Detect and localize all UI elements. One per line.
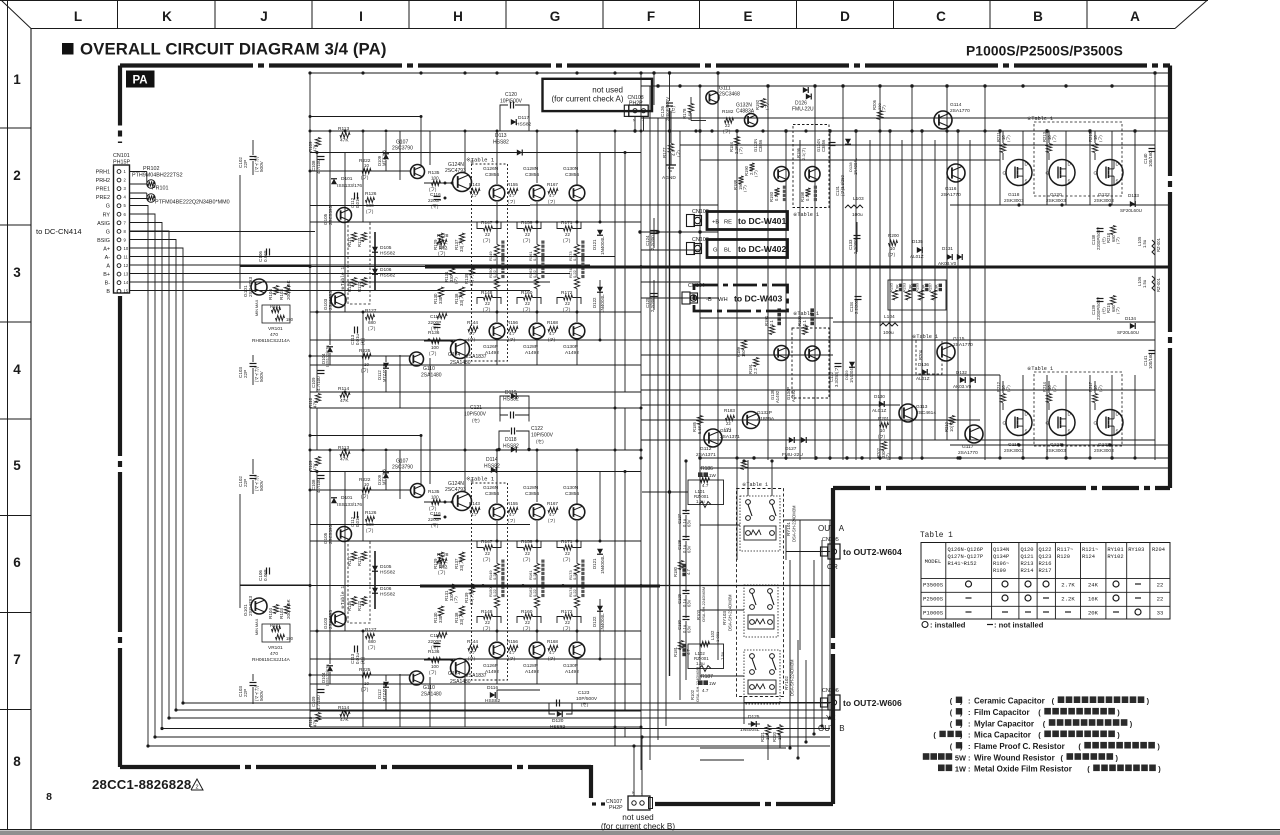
svg-text:(フ): (フ): [468, 656, 476, 661]
svg-text:G128P: G128P: [523, 344, 538, 350]
svg-text:2SA1480: 2SA1480: [450, 360, 471, 366]
svg-text:(フ): (フ): [676, 150, 681, 157]
wire: [424, 659, 452, 661]
wire: [1094, 403, 1096, 410]
transistor: [899, 404, 917, 422]
resistor R101 network: [262, 305, 290, 323]
svg-text:16K: 16K: [1088, 596, 1099, 603]
svg-text:63V: 63V: [687, 545, 692, 553]
svg-text:R204: R204: [918, 349, 923, 360]
wire thick rail A: [425, 266, 1170, 269]
header tick: [408, 0, 410, 29]
wire: [911, 86, 913, 460]
resistor: [315, 138, 320, 147]
svg-text:(フ): (フ): [368, 326, 376, 331]
resistor: [437, 558, 447, 563]
svg-text:22: 22: [485, 301, 490, 306]
row tick: [0, 515, 31, 517]
japanese text: [698, 680, 703, 685]
svg-text:6: 6: [13, 555, 21, 570]
svg-text:R118: R118: [347, 601, 352, 611]
svg-text:2SC3468: 2SC3468: [719, 92, 740, 98]
wire: [957, 131, 959, 440]
svg-text:to DC-CN414: to DC-CN414: [36, 227, 82, 236]
svg-text:C3856: C3856: [565, 491, 579, 497]
svg-text:※Table 1: ※Table 1: [1027, 366, 1053, 372]
svg-text:2SK3003: 2SK3003: [1094, 198, 1114, 204]
wire thick rail B: [420, 585, 660, 588]
wire: [641, 297, 718, 299]
svg-text:G: G: [1094, 171, 1098, 176]
dashed box driver B: [792, 328, 829, 398]
wire: [641, 231, 718, 233]
resistor: [753, 358, 758, 367]
svg-text:0.22: 0.22: [572, 588, 577, 597]
svg-text:(フ): (フ): [483, 557, 491, 562]
wire: [536, 587, 538, 597]
svg-text:G113: G113: [916, 404, 928, 410]
japanese text: [501, 576, 504, 579]
svg-text:(フ): (フ): [438, 570, 446, 575]
svg-text:MTZJ1B: MTZJ1B: [382, 150, 387, 166]
dashed box R204: [916, 340, 942, 374]
svg-text:1N4004L: 1N4004L: [853, 157, 858, 175]
svg-text:0.1: 0.1: [805, 195, 810, 201]
svg-text:RY102: RY102: [784, 676, 789, 690]
wire: [1022, 131, 1024, 205]
svg-text:G126N: G126N: [483, 485, 499, 491]
wire: [536, 608, 538, 642]
diode: [331, 179, 337, 184]
svg-text:D130: D130: [874, 394, 885, 399]
svg-text:G118: G118: [1008, 192, 1020, 198]
svg-text:(フ): (フ): [508, 656, 516, 661]
wire: [310, 540, 641, 542]
wire: [310, 683, 641, 685]
transistor: [331, 293, 346, 308]
resistor: [468, 645, 478, 650]
svg-text:R172: R172: [561, 609, 573, 615]
svg-text:0.22: 0.22: [532, 571, 537, 580]
svg-text:A1492: A1492: [485, 669, 499, 675]
wire: [700, 759, 744, 761]
svg-text:G123: G123: [1098, 442, 1110, 448]
svg-text:VR101: VR101: [268, 645, 283, 651]
resistor: [1092, 394, 1097, 403]
svg-text:R156: R156: [507, 320, 518, 325]
dashed table box column Q126: [472, 164, 508, 361]
svg-text:R160: R160: [521, 609, 533, 615]
wire CN101 signal: [130, 273, 571, 275]
svg-text:C120: C120: [505, 92, 517, 98]
wire: [641, 339, 1155, 341]
resistor: [524, 614, 533, 619]
svg-text:D125: D125: [748, 714, 760, 720]
wire ladder steps: [477, 298, 484, 305]
wire: [624, 727, 626, 737]
svg-text:R117~: R117~: [1057, 547, 1073, 553]
wire: [717, 73, 719, 660]
svg-text:4.7: 4.7: [686, 569, 691, 575]
svg-text:※Table 1: ※Table 1: [912, 334, 938, 340]
diode: [327, 666, 333, 671]
svg-text:G117: G117: [962, 444, 974, 450]
diode: [806, 94, 811, 100]
wire CN101 signal: [130, 256, 616, 258]
japanese text: [1093, 765, 1100, 772]
capacitor: [511, 428, 513, 435]
wire: [536, 202, 538, 245]
wire: [680, 144, 1155, 146]
svg-text:DSA-SH-224DM3M: DSA-SH-224DM3M: [728, 594, 733, 631]
capacitor: [318, 475, 325, 477]
row tick: [0, 709, 31, 711]
svg-text:S: S: [1116, 429, 1119, 434]
CN101 pin 15 B: [117, 289, 121, 293]
wire: [536, 521, 538, 564]
transistor Q118 2SK3003: [1006, 160, 1032, 186]
resistor: [880, 422, 889, 427]
wire: [642, 491, 688, 493]
resistor PR101: [147, 194, 155, 202]
svg-text:※Table 1: ※Table 1: [340, 586, 346, 609]
resistor: [931, 290, 936, 300]
svg-text:S: S: [1025, 429, 1028, 434]
svg-text:200 1.6K: 200 1.6K: [286, 279, 291, 300]
svg-text:G: G: [1003, 171, 1007, 176]
svg-text:2SC5395: 2SC5395: [328, 524, 333, 544]
connector CN103 plug: [687, 243, 695, 255]
svg-text:G: G: [106, 229, 110, 235]
svg-text:※Table 1: ※Table 1: [793, 212, 819, 218]
CN101 pin 3 PRE1: [117, 187, 121, 191]
wire: [576, 587, 578, 597]
svg-text:4.7/100: 4.7/100: [316, 695, 321, 710]
PA boundary right: [1168, 66, 1172, 489]
resistor: [548, 326, 558, 331]
svg-text:G124: G124: [448, 671, 460, 677]
wire: [252, 480, 254, 494]
wire: [950, 444, 1170, 446]
transistor: [410, 352, 424, 366]
svg-text:OUT A: OUT A: [818, 524, 845, 533]
svg-text:R207: R207: [929, 283, 933, 292]
resistor: [470, 188, 480, 193]
resistor: [564, 614, 573, 619]
wire: [310, 407, 641, 409]
japanese text: [938, 765, 945, 772]
svg-text:2SA1993: 2SA1993: [328, 610, 333, 629]
resistor: [432, 180, 441, 185]
resistor: [881, 442, 886, 451]
wire: [1002, 153, 1004, 160]
wire: [576, 289, 578, 323]
resistor: [273, 286, 278, 295]
svg-text:4.7: 4.7: [702, 688, 709, 693]
svg-text:R225: R225: [359, 348, 371, 354]
japanese text: [810, 322, 814, 326]
transistor: [805, 167, 820, 182]
svg-text:C4883A: C4883A: [736, 109, 755, 115]
svg-text:(フ): (フ): [508, 337, 516, 342]
resistor: [760, 99, 765, 108]
capacitor: [683, 616, 690, 618]
svg-text:D119: D119: [505, 390, 517, 396]
wire: [634, 117, 636, 132]
svg-text:1N4004L: 1N4004L: [600, 555, 605, 574]
svg-text:Mica Capacitor: Mica Capacitor: [974, 731, 1031, 740]
transistor: [569, 323, 585, 339]
svg-text:AK03.V0: AK03.V0: [953, 384, 972, 389]
svg-text:12K: 12K: [765, 732, 770, 740]
wire: [316, 472, 318, 712]
svg-text:2SA1770: 2SA1770: [958, 450, 978, 456]
wire: [362, 450, 364, 541]
svg-text:(フ): (フ): [483, 307, 491, 312]
svg-text:100/160: 100/160: [1148, 353, 1153, 369]
resistor: [574, 278, 579, 289]
svg-text:4.7: 4.7: [469, 650, 476, 655]
resistor: [361, 597, 366, 606]
wire: [641, 354, 833, 356]
svg-text:2.2/200: 2.2/200: [650, 235, 655, 250]
svg-text:Mylar Capacitor: Mylar Capacitor: [974, 719, 1034, 728]
wire: [785, 131, 787, 460]
diode: [383, 473, 389, 478]
svg-text:D101: D101: [341, 495, 353, 501]
wire: [685, 541, 687, 592]
svg-text:500V: 500V: [259, 370, 264, 382]
wire: [736, 131, 738, 560]
svg-text:(フ): (フ): [723, 129, 731, 134]
svg-text:※Table 1: ※Table 1: [793, 311, 819, 317]
resistor: [668, 144, 673, 153]
svg-text:R122: R122: [357, 281, 362, 292]
svg-text:22: 22: [565, 301, 570, 306]
svg-text:A-: A-: [105, 255, 111, 261]
svg-text:R168: R168: [547, 320, 558, 325]
svg-text:100: 100: [431, 664, 439, 669]
resistor: [276, 315, 285, 320]
resistor: [315, 457, 320, 466]
wire: [576, 256, 578, 267]
RZ102 element L102: [688, 644, 724, 669]
transistor: [337, 527, 352, 542]
PA boundary right riser: [831, 488, 835, 804]
svg-text:(フ): (フ): [548, 656, 556, 661]
capacitor: [266, 568, 268, 575]
svg-text:22: 22: [485, 551, 490, 556]
header tick: [117, 0, 119, 29]
svg-text:Q122: Q122: [1039, 547, 1052, 553]
svg-text:C3856: C3856: [821, 139, 826, 152]
table 1 grid: [921, 543, 1170, 620]
wire: [429, 408, 431, 450]
capacitor: [829, 142, 836, 144]
svg-text:H: H: [453, 9, 463, 24]
svg-text:R196~: R196~: [993, 561, 1009, 567]
junction dots: [656, 84, 659, 87]
transistor: [251, 598, 267, 614]
svg-text:(フ): (フ): [368, 645, 376, 650]
resistor: [432, 499, 441, 504]
wire: [1089, 131, 1091, 205]
transistor: [410, 671, 424, 685]
svg-text:D116: D116: [487, 685, 498, 691]
resistor: [351, 278, 356, 287]
svg-text:R177: R177: [662, 147, 667, 158]
transistor: [331, 612, 346, 627]
svg-text:680: 680: [439, 245, 447, 250]
resistor: [276, 634, 285, 639]
svg-text:22: 22: [525, 551, 530, 556]
svg-text:R104: R104: [268, 289, 273, 300]
resistor: [366, 516, 375, 521]
svg-text:D122: D122: [592, 297, 597, 308]
svg-text:22: 22: [565, 551, 570, 556]
wire: [670, 111, 672, 143]
svg-text:R155: R155: [507, 182, 518, 187]
diode: [803, 87, 808, 93]
svg-text:G130N: G130N: [563, 166, 579, 172]
capacitor: [354, 193, 356, 200]
diode: [970, 377, 975, 383]
svg-text:P2500S: P2500S: [923, 596, 944, 603]
svg-text:R159: R159: [521, 539, 533, 545]
transistor: [947, 164, 965, 182]
wire: [685, 621, 687, 680]
relay RY102: [744, 650, 780, 704]
wire: [362, 312, 364, 408]
svg-text:1.5u: 1.5u: [1142, 239, 1147, 248]
svg-text:2SA1371: 2SA1371: [696, 452, 716, 458]
wire: [329, 334, 331, 345]
wire: [690, 113, 692, 121]
svg-text:4.7: 4.7: [702, 483, 709, 488]
svg-text:(フ): (フ): [878, 434, 886, 439]
wire: [576, 608, 578, 642]
wire: [641, 419, 980, 421]
row tick: [0, 418, 31, 420]
svg-text:YE: YE: [826, 713, 836, 722]
svg-text:10: 10: [364, 681, 369, 686]
resistor: [805, 188, 810, 196]
capacitor: [556, 700, 558, 707]
svg-text:C102: C102: [238, 157, 243, 168]
wire: [1094, 131, 1096, 143]
svg-text:2SA1480: 2SA1480: [450, 679, 471, 685]
svg-text:D105: D105: [380, 245, 392, 251]
wire: [653, 218, 655, 248]
svg-text:Q134P: Q134P: [993, 554, 1009, 560]
transistor: [774, 167, 789, 182]
connector CN104 box dashed: [694, 285, 788, 311]
svg-text:2SC3790: 2SC3790: [392, 465, 413, 471]
japanese text: [777, 322, 781, 326]
wire: [614, 450, 616, 727]
wire: [670, 153, 672, 165]
svg-text:0.1: 0.1: [774, 195, 779, 201]
wire: [1048, 381, 1050, 393]
CN101 pin 14 B-: [117, 281, 121, 285]
header tick: [893, 0, 895, 29]
resistor: [272, 307, 281, 312]
top-left corner diagonal: [1, 0, 31, 29]
japanese text: [956, 719, 962, 725]
svg-text:G130N: G130N: [563, 485, 579, 491]
svg-text:D105: D105: [380, 564, 392, 570]
relay RY103: [744, 585, 778, 637]
transistor: [489, 504, 505, 520]
wire: [614, 408, 616, 450]
capacitor: [510, 102, 512, 109]
wire: [310, 116, 421, 118]
svg-text:R121~: R121~: [1082, 547, 1098, 553]
svg-text:(フ): (フ): [366, 528, 374, 533]
japanese text: [1058, 696, 1065, 703]
svg-text:22: 22: [485, 620, 490, 625]
svg-text:BSIG: BSIG: [97, 238, 110, 244]
svg-text:2.2K: 2.2K: [1061, 596, 1075, 603]
resistor: [548, 507, 558, 512]
svg-text:L103: L103: [853, 196, 864, 202]
japanese text: [541, 594, 544, 597]
diode: [372, 566, 378, 571]
svg-text:G121: G121: [1050, 442, 1062, 448]
row tick: [0, 612, 31, 614]
wire ladder steps: [557, 298, 564, 305]
capacitor: [1149, 148, 1156, 150]
svg-text:2SC3790: 2SC3790: [392, 146, 413, 152]
svg-text:to DC-W401: to DC-W401: [738, 216, 786, 226]
svg-text:R200: R200: [888, 233, 899, 238]
resistor: [1000, 144, 1005, 153]
svg-text:(フ): (フ): [523, 557, 531, 562]
transistor: [529, 323, 545, 339]
svg-text:(フ): (フ): [563, 557, 571, 562]
svg-text:G: G: [1046, 421, 1050, 426]
svg-text:100u: 100u: [883, 330, 894, 336]
wire: [429, 358, 431, 408]
svg-text:C3856: C3856: [485, 172, 499, 178]
svg-text:SF20L60U: SF20L60U: [1120, 208, 1142, 213]
svg-text:R147: R147: [481, 220, 493, 226]
svg-text:R114: R114: [338, 705, 349, 711]
wire: [429, 131, 431, 165]
resistor: [468, 326, 478, 331]
svg-text:R117: R117: [347, 556, 352, 566]
wire: [329, 353, 331, 365]
wire: [1048, 153, 1050, 160]
diode: [597, 606, 603, 611]
wire: [1002, 131, 1004, 143]
transistor: [411, 165, 425, 179]
wire: [789, 560, 791, 620]
svg-text:2SA1770: 2SA1770: [950, 108, 970, 114]
header tick: [699, 0, 701, 29]
svg-text:P1000S/P2500S/P3500S: P1000S/P2500S/P3500S: [966, 44, 1123, 59]
svg-text:P3500S: P3500S: [923, 582, 944, 589]
wire: [374, 551, 376, 609]
svg-text:680: 680: [439, 564, 447, 569]
wire: [685, 595, 687, 618]
capacitor: [855, 296, 862, 298]
svg-text:RZ-001: RZ-001: [1156, 237, 1161, 252]
wire ladder steps: [517, 222, 524, 229]
resistor: [524, 226, 533, 231]
svg-text:G128N: G128N: [523, 485, 539, 491]
wire: [496, 450, 498, 503]
